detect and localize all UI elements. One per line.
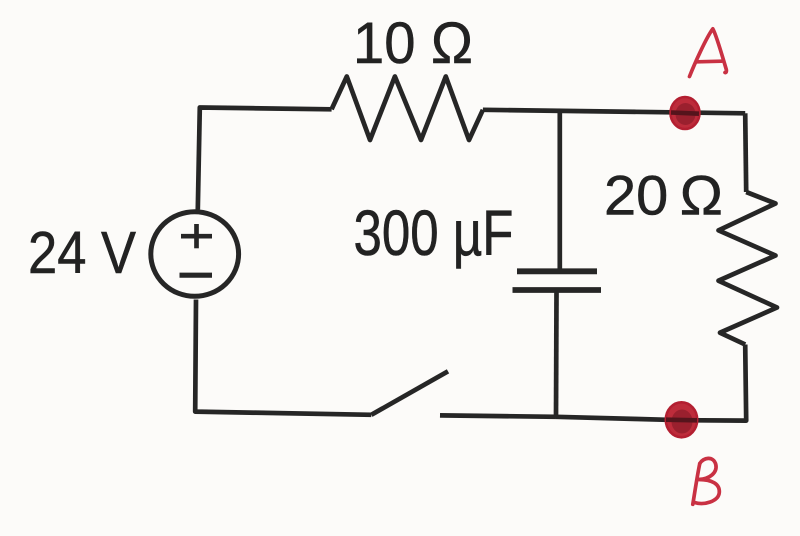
wire bottom-left: switch pivot to source [195,300,371,415]
wire top-right: R1 to corner through node A [483,110,745,114]
wire right-top: corner down to R2 [745,113,746,192]
wire bottom-right: node B to capacitor junction [556,417,681,420]
capacitor C1 bottom lead [554,293,559,417]
switch S1 blade [371,371,448,415]
capacitor C1 top lead [557,111,562,268]
resistor R1 [332,77,483,141]
svg-text:24 V: 24 V [28,219,136,286]
wire bottom switch contact [440,415,556,416]
node A red dot [671,97,700,129]
node B red dot [666,402,697,437]
wire top-left: source top lead up and corner [198,108,332,210]
capacitor C1 bottom plate [513,287,602,293]
node label A (handwritten red) [690,29,727,77]
resistor R2 [719,192,778,345]
svg-text:20 Ω: 20 Ω [604,164,723,227]
node label B (handwritten red) [693,458,720,504]
V1 plus sign [181,234,212,239]
wire right-bottom: R2 to bottom corner [681,345,746,421]
svg-text:10 Ω: 10 Ω [353,11,473,76]
svg-text:300 µF: 300 µF [354,197,514,269]
V1 minus sign [180,273,213,278]
voltage source V1 circle [151,212,239,297]
capacitor C1 top plate [517,268,597,274]
